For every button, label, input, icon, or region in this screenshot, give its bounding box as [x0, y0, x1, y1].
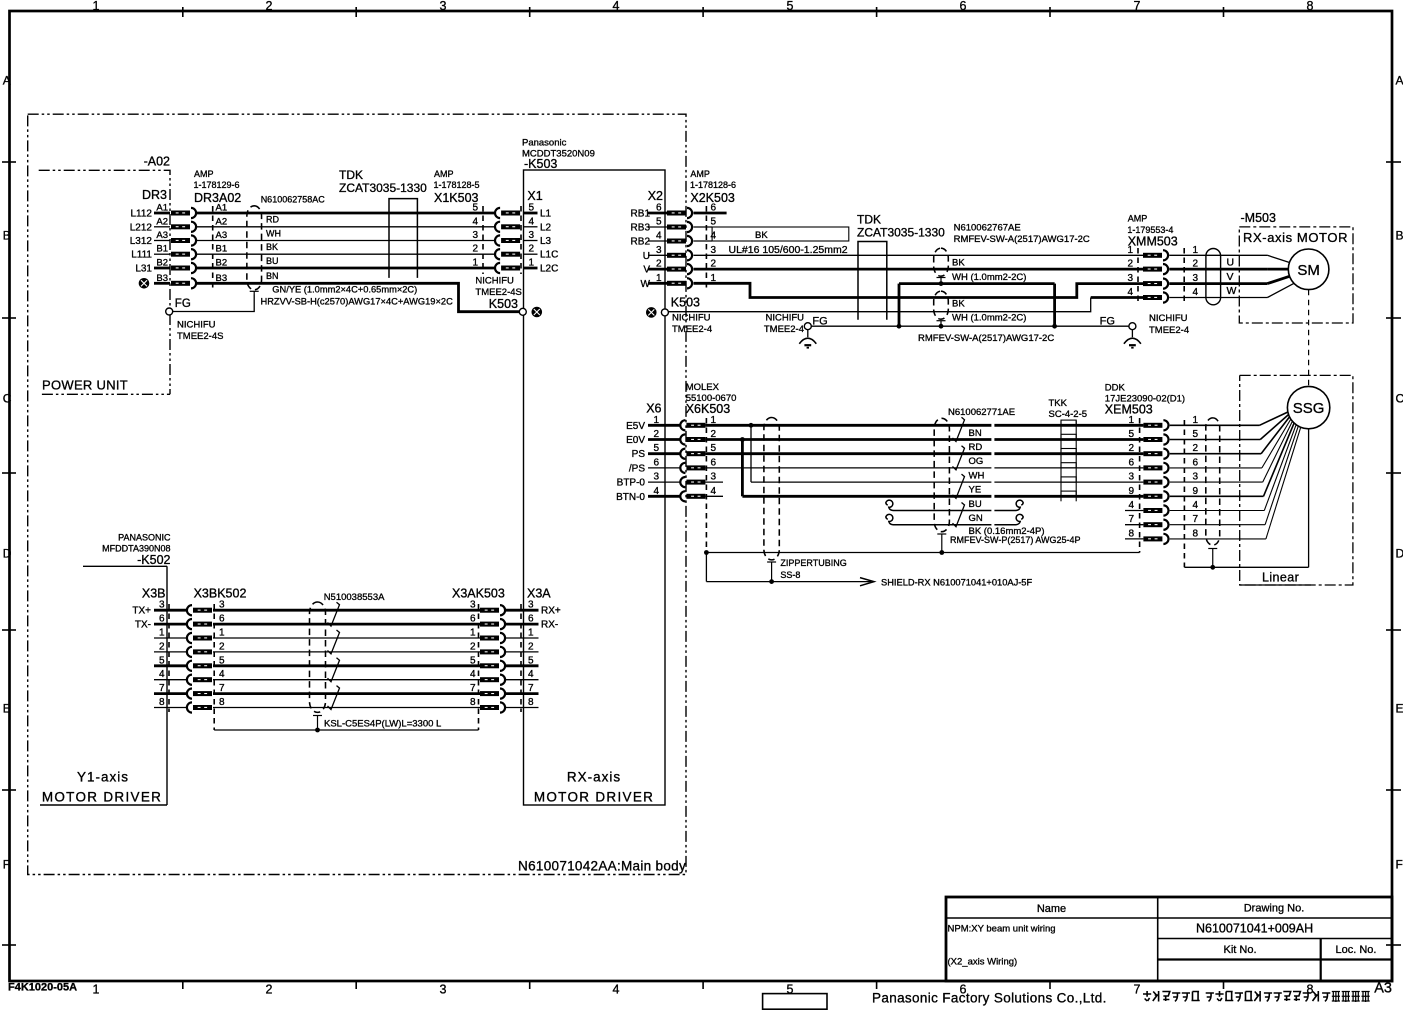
svg-text:1: 1 — [470, 628, 476, 639]
svg-text:AMP: AMP — [1128, 214, 1148, 224]
svg-text:6: 6 — [470, 614, 476, 625]
svg-text:8: 8 — [1128, 528, 1134, 539]
svg-text:8: 8 — [528, 697, 534, 708]
svg-text:6: 6 — [653, 457, 659, 468]
svg-text:BN: BN — [266, 271, 279, 281]
svg-text:4: 4 — [528, 669, 534, 680]
svg-text:BU: BU — [266, 256, 279, 266]
svg-text:1: 1 — [1128, 415, 1134, 426]
svg-text:L3: L3 — [540, 236, 552, 247]
svg-text:-K502: -K502 — [137, 553, 170, 567]
svg-text:3: 3 — [711, 472, 717, 483]
svg-text:DR3: DR3 — [142, 188, 167, 202]
svg-text:L112: L112 — [130, 209, 152, 220]
svg-text:TDK: TDK — [857, 213, 881, 227]
svg-text:W: W — [641, 279, 651, 290]
svg-text:/PS: /PS — [629, 463, 645, 474]
svg-text:2: 2 — [266, 983, 273, 997]
svg-text:WH (1.0mm2-2C): WH (1.0mm2-2C) — [952, 272, 1026, 283]
svg-text:L1: L1 — [540, 209, 552, 220]
svg-text:B: B — [3, 228, 11, 242]
svg-text:F: F — [3, 857, 10, 871]
svg-text:4: 4 — [1127, 287, 1133, 298]
svg-text:4: 4 — [1193, 287, 1199, 298]
svg-text:TMEE2-4: TMEE2-4 — [1149, 325, 1189, 336]
svg-text:N610062758AC: N610062758AC — [261, 194, 326, 204]
svg-text:PANASONIC: PANASONIC — [118, 533, 171, 543]
svg-text:7: 7 — [159, 683, 165, 694]
svg-text:RB2: RB2 — [631, 237, 651, 248]
svg-text:C: C — [3, 391, 12, 405]
svg-text:W: W — [1227, 285, 1237, 297]
svg-text:NICHIFU: NICHIFU — [672, 313, 711, 324]
svg-text:NICHIFU: NICHIFU — [177, 320, 216, 331]
svg-text:6: 6 — [1193, 457, 1199, 468]
svg-text:1-178128-6: 1-178128-6 — [690, 180, 736, 190]
svg-text:2: 2 — [159, 641, 165, 652]
svg-text:DDK: DDK — [1105, 383, 1126, 394]
svg-text:RX-axis: RX-axis — [567, 770, 621, 785]
svg-text:BK: BK — [952, 298, 965, 309]
svg-text:-K503: -K503 — [524, 157, 557, 171]
svg-text:L312: L312 — [130, 236, 153, 247]
svg-text:1: 1 — [472, 258, 478, 269]
svg-text:F: F — [1396, 857, 1403, 871]
svg-text:K503: K503 — [489, 297, 518, 311]
svg-text:N610071041+009AH: N610071041+009AH — [1196, 922, 1313, 936]
svg-text:WH (1.0mm2-2C): WH (1.0mm2-2C) — [952, 313, 1026, 324]
svg-text:5: 5 — [787, 0, 794, 13]
svg-text:4: 4 — [613, 983, 620, 997]
svg-text:U: U — [1227, 257, 1235, 269]
svg-text:FG: FG — [1100, 316, 1115, 328]
svg-text:5: 5 — [711, 217, 717, 228]
svg-text:Panasonic Factory Solutions: Panasonic Factory Solutions Co.,Ltd. — [872, 991, 1107, 1006]
svg-text:1: 1 — [219, 628, 225, 639]
svg-text:3: 3 — [1128, 472, 1134, 483]
svg-text:WH: WH — [266, 228, 281, 238]
svg-text:Name: Name — [1037, 903, 1066, 915]
svg-text:9: 9 — [1193, 486, 1199, 497]
svg-text:ZCAT3035-1330: ZCAT3035-1330 — [339, 181, 427, 195]
svg-text:E: E — [1396, 701, 1403, 715]
svg-text:RX+: RX+ — [541, 606, 561, 617]
svg-text:L111: L111 — [131, 250, 152, 261]
svg-text:V: V — [643, 265, 650, 276]
svg-text:L212: L212 — [130, 222, 153, 233]
svg-text:NICHIFU: NICHIFU — [475, 276, 514, 287]
svg-text:4: 4 — [219, 669, 225, 680]
svg-text:RD: RD — [266, 215, 279, 225]
svg-text:2: 2 — [1127, 259, 1133, 270]
svg-text:5: 5 — [653, 443, 659, 454]
svg-text:1-178128-5: 1-178128-5 — [434, 180, 480, 190]
svg-text:GN/YE (1.0mm2×4C+0.65mm×2C): GN/YE (1.0mm2×4C+0.65mm×2C) — [272, 284, 417, 294]
svg-text:E5V: E5V — [626, 421, 645, 432]
svg-text:2: 2 — [470, 641, 476, 652]
svg-text:7: 7 — [1134, 0, 1141, 13]
svg-text:B1: B1 — [216, 244, 228, 255]
svg-text:1: 1 — [93, 0, 100, 13]
svg-text:B1: B1 — [156, 244, 168, 255]
svg-text:NICHIFU: NICHIFU — [765, 313, 804, 324]
svg-text:(X2_axis Wiring): (X2_axis Wiring) — [948, 957, 1018, 968]
svg-text:6: 6 — [159, 614, 165, 625]
svg-text:3: 3 — [1127, 273, 1133, 284]
svg-text:1: 1 — [528, 628, 534, 639]
svg-text:2: 2 — [1128, 443, 1134, 454]
svg-text:1: 1 — [93, 983, 100, 997]
svg-text:1: 1 — [1193, 245, 1199, 256]
svg-text:XMM503: XMM503 — [1128, 234, 1178, 248]
svg-text:U: U — [643, 251, 650, 262]
svg-text:GN: GN — [969, 513, 983, 524]
svg-text:5: 5 — [787, 983, 794, 997]
svg-text:4: 4 — [1128, 500, 1134, 511]
svg-text:4: 4 — [159, 669, 165, 680]
svg-text:AMP: AMP — [194, 169, 214, 179]
svg-text:SS-8: SS-8 — [780, 570, 800, 580]
svg-text:BTN-0: BTN-0 — [616, 492, 645, 503]
svg-text:X3A: X3A — [527, 587, 551, 601]
svg-text:-A02: -A02 — [144, 155, 170, 169]
svg-text:N510038553A: N510038553A — [324, 592, 385, 603]
svg-text:NPM:XY beam unit wiring: NPM:XY beam unit wiring — [948, 924, 1056, 935]
svg-text:4: 4 — [529, 216, 535, 227]
svg-text:2: 2 — [656, 259, 662, 270]
svg-text:4: 4 — [472, 216, 478, 227]
svg-text:2: 2 — [472, 244, 478, 255]
svg-text:X6K503: X6K503 — [686, 402, 731, 416]
svg-text:HRZVV-SB-H(c2570)AWG17×4C+AWG1: HRZVV-SB-H(c2570)AWG17×4C+AWG19×2C — [261, 297, 454, 307]
svg-text:POWER UNIT: POWER UNIT — [42, 378, 128, 393]
svg-text:X1: X1 — [527, 189, 542, 203]
svg-text:E: E — [3, 701, 11, 715]
svg-text:4: 4 — [653, 486, 659, 497]
svg-text:6: 6 — [711, 457, 717, 468]
svg-text:BK: BK — [755, 230, 768, 241]
svg-text:3: 3 — [653, 472, 659, 483]
svg-text:Linear: Linear — [1262, 571, 1299, 585]
svg-text:7: 7 — [470, 683, 476, 694]
svg-text:BK: BK — [266, 242, 278, 252]
svg-text:6: 6 — [656, 203, 662, 214]
svg-text:1: 1 — [653, 415, 659, 426]
svg-text:6: 6 — [1128, 457, 1134, 468]
svg-text:5: 5 — [159, 655, 165, 666]
svg-text:2: 2 — [266, 0, 273, 13]
svg-text:KSL-C5ES4P(LW)L=3300 L: KSL-C5ES4P(LW)L=3300 L — [324, 719, 441, 730]
svg-text:D: D — [3, 546, 12, 560]
svg-text:ZIPPERTUBING: ZIPPERTUBING — [780, 558, 846, 568]
svg-text:RD: RD — [969, 442, 983, 453]
svg-text:MOTOR DRIVER: MOTOR DRIVER — [42, 790, 162, 805]
svg-text:MOTOR DRIVER: MOTOR DRIVER — [534, 790, 654, 805]
svg-text:4: 4 — [656, 231, 662, 242]
svg-text:TMEE2-4S: TMEE2-4S — [177, 331, 223, 342]
svg-text:5: 5 — [1193, 429, 1199, 440]
svg-text:3: 3 — [529, 230, 535, 241]
svg-text:L1C: L1C — [540, 250, 558, 261]
svg-text:OG: OG — [969, 456, 984, 467]
svg-text:X3BK502: X3BK502 — [194, 587, 247, 601]
svg-text:2: 2 — [1193, 443, 1199, 454]
svg-text:8: 8 — [1193, 528, 1199, 539]
svg-text:3: 3 — [470, 600, 476, 611]
svg-text:5: 5 — [1128, 429, 1134, 440]
svg-text:A2: A2 — [156, 216, 168, 227]
svg-text:1: 1 — [656, 273, 662, 284]
svg-text:BK: BK — [952, 258, 965, 269]
svg-text:5: 5 — [472, 203, 478, 214]
svg-text:4: 4 — [1193, 500, 1199, 511]
svg-text:2: 2 — [653, 429, 659, 440]
svg-text:Panasonic: Panasonic — [522, 138, 567, 149]
svg-text:A3: A3 — [156, 230, 168, 241]
svg-text:4: 4 — [711, 231, 717, 242]
svg-text:NICHIFU: NICHIFU — [1149, 313, 1188, 324]
svg-text:RB3: RB3 — [631, 223, 651, 234]
svg-text:4: 4 — [613, 0, 620, 13]
svg-text:N610062771AE: N610062771AE — [948, 407, 1015, 418]
svg-text:-M503: -M503 — [1241, 211, 1276, 225]
svg-text:1: 1 — [1193, 415, 1199, 426]
svg-text:AMP: AMP — [434, 169, 454, 179]
svg-text:SM: SM — [1297, 262, 1320, 279]
svg-text:N610062767AE: N610062767AE — [954, 223, 1021, 234]
svg-text:BTP-0: BTP-0 — [617, 478, 646, 489]
svg-text:SC-4-2-5: SC-4-2-5 — [1049, 409, 1088, 420]
svg-text:V: V — [1227, 271, 1234, 283]
svg-text:SHIELD-RX N610071041+010AJ-5F: SHIELD-RX N610071041+010AJ-5F — [881, 577, 1032, 587]
svg-text:N610071042AA:Main body: N610071042AA:Main body — [518, 859, 686, 874]
svg-text:C: C — [1396, 391, 1403, 405]
svg-text:2: 2 — [529, 244, 535, 255]
svg-text:PS: PS — [632, 449, 646, 460]
svg-text:AMP: AMP — [690, 169, 710, 179]
svg-text:3: 3 — [1193, 472, 1199, 483]
svg-text:FG: FG — [175, 298, 191, 310]
svg-text:L2C: L2C — [540, 264, 558, 275]
svg-text:RB1: RB1 — [631, 209, 651, 220]
svg-text:5: 5 — [656, 217, 662, 228]
svg-text:A3: A3 — [216, 230, 228, 241]
svg-text:A2: A2 — [216, 216, 228, 227]
svg-text:L2: L2 — [540, 222, 552, 233]
svg-text:1: 1 — [1127, 245, 1133, 256]
svg-text:YE: YE — [969, 485, 982, 496]
svg-text:RX-axis MOTOR: RX-axis MOTOR — [1243, 230, 1348, 245]
svg-text:BU: BU — [969, 499, 982, 510]
svg-text:8: 8 — [1307, 0, 1314, 13]
svg-text:MOLEX: MOLEX — [686, 382, 720, 393]
svg-text:X2: X2 — [648, 189, 663, 203]
svg-text:Loc. No.: Loc. No. — [1336, 944, 1377, 956]
svg-text:A1: A1 — [156, 203, 168, 214]
svg-text:B3: B3 — [156, 273, 168, 284]
svg-text:3: 3 — [440, 983, 447, 997]
svg-text:Y1-axis: Y1-axis — [77, 770, 129, 785]
svg-text:RX-: RX- — [541, 620, 558, 631]
svg-text:A: A — [1396, 73, 1403, 87]
svg-text:4: 4 — [711, 486, 717, 497]
svg-text:A3: A3 — [1374, 981, 1392, 997]
svg-text:B: B — [1396, 228, 1403, 242]
svg-text:BN: BN — [969, 428, 982, 439]
svg-text:6: 6 — [960, 0, 967, 13]
svg-text:TMEE2-4: TMEE2-4 — [672, 324, 712, 335]
svg-text:8: 8 — [470, 697, 476, 708]
svg-text:1: 1 — [159, 628, 165, 639]
svg-text:WH: WH — [969, 470, 985, 481]
svg-text:RMFEV-SW-A(2517)AWG17-2C: RMFEV-SW-A(2517)AWG17-2C — [954, 234, 1090, 245]
svg-text:8: 8 — [219, 697, 225, 708]
svg-text:7: 7 — [1128, 514, 1134, 525]
svg-text:SSG: SSG — [1293, 400, 1325, 417]
svg-text:Kit No.: Kit No. — [1223, 944, 1256, 956]
svg-text:E0V: E0V — [626, 435, 645, 446]
svg-text:3: 3 — [440, 0, 447, 13]
svg-text:7: 7 — [1193, 514, 1199, 525]
svg-text:UL#16 105/600-1.25mm2: UL#16 105/600-1.25mm2 — [729, 244, 848, 256]
svg-text:3: 3 — [159, 600, 165, 611]
svg-text:1-178129-6: 1-178129-6 — [194, 180, 240, 190]
svg-text:MFDDTA390N08: MFDDTA390N08 — [102, 544, 170, 554]
svg-text:9: 9 — [1128, 486, 1134, 497]
svg-text:2: 2 — [528, 641, 534, 652]
svg-text:4: 4 — [470, 669, 476, 680]
svg-text:Drawing No.: Drawing No. — [1244, 903, 1305, 915]
svg-text:TX-: TX- — [135, 620, 151, 631]
svg-text:X6: X6 — [646, 402, 661, 416]
svg-text:7: 7 — [1134, 983, 1141, 997]
svg-text:D: D — [1396, 546, 1403, 560]
svg-text:K503: K503 — [671, 296, 700, 310]
svg-text:TX+: TX+ — [132, 606, 151, 617]
svg-text:ZCAT3035-1330: ZCAT3035-1330 — [857, 226, 945, 240]
svg-text:X3AK503: X3AK503 — [452, 587, 505, 601]
svg-text:F4K1020-05A: F4K1020-05A — [8, 982, 77, 994]
svg-text:B2: B2 — [156, 258, 168, 269]
svg-text:TMEE2-4: TMEE2-4 — [764, 324, 804, 335]
svg-text:RMFEV-SW-P(2517) AWG25-4P: RMFEV-SW-P(2517) AWG25-4P — [950, 535, 1081, 545]
svg-text:3: 3 — [711, 245, 717, 256]
svg-text:A: A — [3, 73, 11, 87]
svg-text:TKK: TKK — [1049, 398, 1068, 409]
svg-text:8: 8 — [159, 697, 165, 708]
svg-text:RMFEV-SW-A(2517)AWG17-2C: RMFEV-SW-A(2517)AWG17-2C — [918, 333, 1054, 344]
svg-text:3: 3 — [472, 230, 478, 241]
svg-text:3: 3 — [656, 245, 662, 256]
svg-text:5: 5 — [470, 655, 476, 666]
svg-text:L31: L31 — [135, 264, 152, 275]
svg-text:2: 2 — [219, 641, 225, 652]
svg-text:X3B: X3B — [142, 587, 166, 601]
